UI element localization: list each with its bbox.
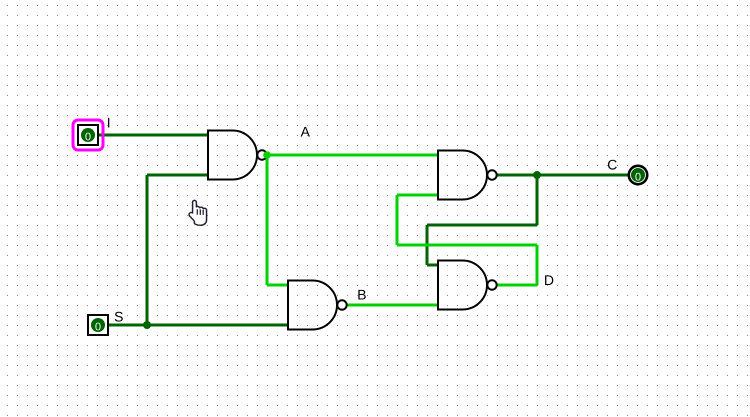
nand gate U1 (208, 131, 267, 180)
wire net S: to U1 input 2 (147, 174, 208, 177)
wire net A: to U3 input 1 (267, 284, 288, 287)
wire net I: pin I to U1 input 1 (95, 134, 208, 137)
wire net C: to U4 input 1 (427, 264, 438, 267)
label S (115, 312, 123, 322)
mouse hand cursor (189, 200, 206, 225)
wire net C: U2 output to pin C (497, 174, 630, 177)
junction net C at (537,175) (533, 171, 541, 179)
pin S value "0" (95, 323, 100, 331)
wire net A: U1 output to U2 input 1 (267, 154, 438, 157)
label D (545, 275, 553, 285)
wire net D: vertical up (536, 245, 539, 285)
input pin S (88, 315, 108, 335)
wire net C: vertical down to U4 (426, 225, 429, 265)
wire net S: vertical branch up (146, 175, 149, 325)
junction net S at (147,325) (143, 321, 151, 329)
input pin I (selected) (73, 120, 103, 150)
output pin C (629, 166, 647, 184)
wire net B: U3 output to U4 input 2 (347, 304, 438, 307)
nand gate U3 (288, 281, 347, 330)
nand gate U2 (438, 151, 497, 200)
label B (358, 290, 365, 300)
wire net C: feedback horizontal (427, 224, 537, 227)
pin C value "0" (635, 173, 640, 181)
wire net D: vertical down to U2 (396, 195, 399, 245)
label I (108, 118, 109, 128)
label C (608, 160, 617, 170)
wire net D: U4 output right (497, 284, 537, 287)
pin I value "0" (85, 133, 90, 141)
wire net A: vertical branch down (266, 155, 269, 285)
nand gate U4 (438, 261, 497, 310)
wire net C: vertical down from junction (536, 175, 539, 225)
wire net D: to U2 input 2 (397, 194, 438, 197)
wire net S: pin S to U3 input 2 (105, 324, 288, 327)
label A (301, 127, 310, 137)
junction net A at (267,155) (263, 151, 271, 159)
wire net D: feedback horizontal (397, 244, 537, 247)
